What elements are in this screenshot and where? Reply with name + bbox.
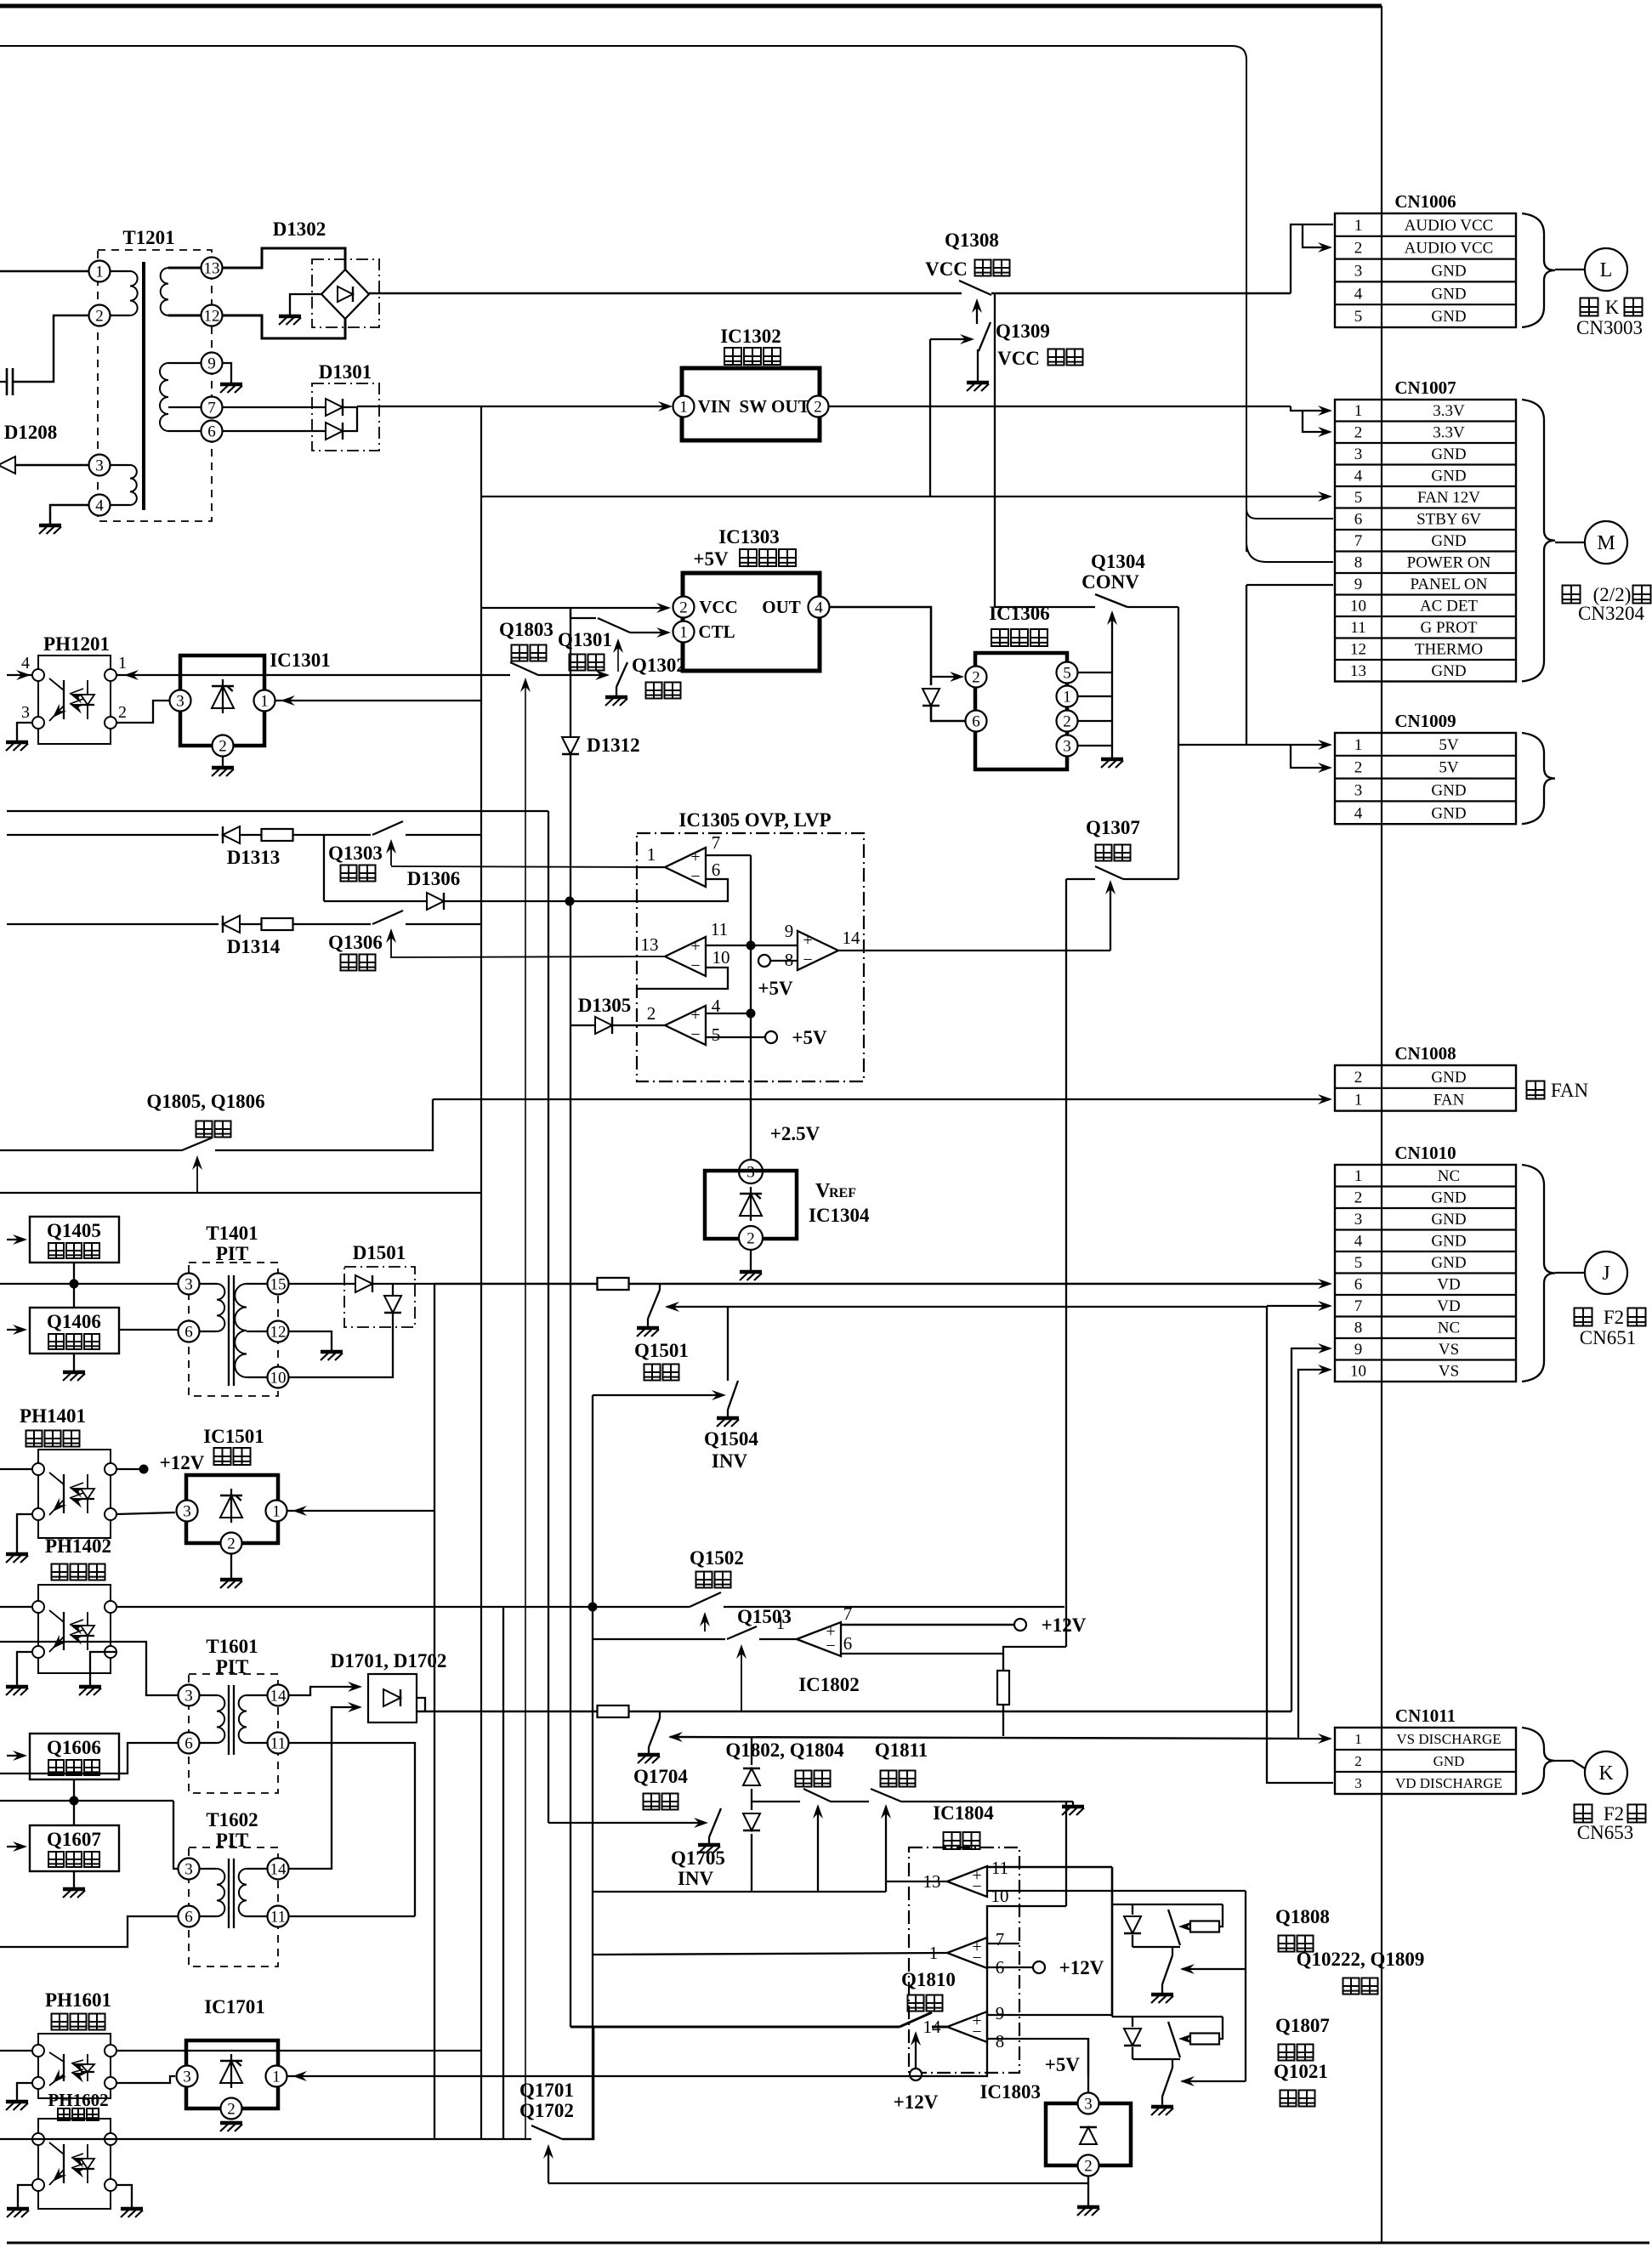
transformer T1201 winding 3-4 [111,464,130,466]
junction dot x=697 on Q1502 line [588,1603,598,1612]
diode Q1807 cell [1132,2017,1133,2027]
regulator IC1303 box [683,573,820,671]
wire PH1402 bottom-left ground [17,1652,32,1685]
+5V terminal comp pin8 [758,955,770,967]
IC1306 pin 5 [1057,662,1078,684]
ground at PH1402 right [79,1685,101,1689]
diode D1312 [562,737,579,754]
arrow into Q1807 blade [1178,2034,1193,2044]
wire bus x=697 [592,1395,593,2139]
driver IC1306 box [975,653,1067,769]
T1602 pin 3 [179,1859,200,1880]
T1401 pin 3 [179,1274,200,1295]
PH1402 phototransistor [63,1612,65,1650]
wire IC1701 pin1 line [287,1906,1066,2076]
resistor under IC1802 [997,1671,1009,1705]
svg-text:2: 2 [1063,712,1071,730]
wire T1201 pin 13 to D1302 [223,248,345,270]
wire Q1405 to line [73,1263,75,1308]
IC1804 comparator 14 [947,2012,987,2042]
wire input to T1201 pin 1 [0,270,88,273]
junction dot +12V [139,1465,149,1474]
switch Q1504 blade [728,1381,738,1410]
arrow into PH1201 pin 1 [124,670,139,680]
optocoupler PH1601 box [38,2034,111,2098]
label Q1807 charge [1279,2045,1295,2061]
wire 3.3V into CN1007 row1 [1291,406,1326,411]
svg-text:D1302: D1302 [273,218,326,240]
ground under Q1504 [717,1416,739,1421]
transformer T1201 core [142,262,145,510]
Q1810 +12V terminal [910,2069,922,2080]
diode D1314 [223,916,240,933]
wire Q1303 control to IC1305 pin1 [391,866,665,867]
wire Q1502 right [724,1606,1064,1608]
ground at PH1402 left [6,1685,28,1689]
Q1803 control arrow [525,680,526,724]
svg-text:NC: NC [1438,1167,1460,1185]
svg-text:11: 11 [270,1908,286,1926]
transformer T1201 pin 7 [202,397,223,418]
svg-text:+: + [803,931,812,950]
ground under Q1302 [605,695,627,700]
wire PH1401 to IC1501 pin3 [116,1512,175,1514]
IC1306 pin 1 [1057,686,1078,707]
svg-text:2: 2 [95,307,104,325]
T1602 pin 11 [268,1906,289,1927]
PH1201 pin3 circle [32,717,44,729]
svg-text:GND: GND [1431,445,1466,463]
wire PH1601 to IC1701 pin3 [116,2076,175,2083]
svg-text:6: 6 [185,1734,193,1752]
wire T1201 pin 4 to ground [50,505,88,524]
arrow into IC1501 pin 1 [292,1506,307,1516]
svg-text:11: 11 [1350,619,1365,637]
wire bracket to M [1555,542,1585,543]
wire IC1304 pin2 ground stem [750,1250,752,1270]
svg-text:3: 3 [1354,262,1363,280]
svg-text:Q10222, Q1809: Q10222, Q1809 [1297,1949,1425,1970]
ground PH1602 right [121,2207,143,2211]
wire Q1808 rail [1112,1904,1223,1905]
junction dot node pin11 [747,941,756,951]
ground at PH1601 [6,2100,28,2104]
svg-text:CN1006: CN1006 [1394,191,1456,212]
switch Q1810 blade [900,2012,932,2027]
wire Q1406 to T1401 pin 6 [119,1329,178,1331]
switch Q1803 blade [510,662,538,675]
svg-text:3: 3 [185,1860,193,1878]
svg-text:1: 1 [647,844,656,865]
wire diode chain mid [751,1789,752,1810]
wire PH1601 bottom-left ground [17,2083,32,2100]
svg-text:IC1302: IC1302 [720,326,781,347]
IC1306 pin 3 [1057,735,1078,757]
svg-text:+12V: +12V [894,2091,939,2113]
wire into CTL [649,632,666,633]
wire PH1601 top-right line [116,2050,481,2052]
PH1201 LED [87,680,88,695]
wire node vertical to IC1304 [750,945,752,1160]
arrow VD into CN1010 row6 [1318,1279,1332,1289]
svg-text:3.3V: 3.3V [1433,402,1465,420]
svg-text:K: K [1605,297,1620,318]
wire pin8 to +5V terminal [770,960,798,962]
wire comp14 pin8 [987,2039,1088,2076]
svg-text:13: 13 [204,259,220,277]
connector CN1011 table [1335,1728,1516,1794]
wire Q1805 right [215,1099,433,1150]
svg-text:5: 5 [1354,1254,1363,1272]
wire bus x=671 from VCC line down [570,608,571,737]
wire comp1 output to box edge [637,866,665,868]
IC1302 pin 2 [808,396,829,417]
svg-text:2: 2 [1084,2157,1093,2175]
svg-text:D1306: D1306 [407,868,461,889]
arrow into Q10222 [1182,1968,1246,1970]
wire IC1501 pin1 line [287,1510,434,1512]
wire D1306 line [324,900,427,902]
wire comp1 pin6 to +12V [987,1966,1033,1968]
svg-text:L: L [1600,259,1613,281]
svg-text:1: 1 [679,398,688,416]
svg-text:D1501: D1501 [353,1242,406,1263]
svg-text:6: 6 [712,860,721,880]
svg-text:9: 9 [785,921,794,941]
svg-text:D1701, D1702: D1701, D1702 [331,1650,447,1671]
svg-text:3: 3 [1354,1211,1363,1229]
IC1306 pin 2 right [1057,711,1078,732]
connector CN1009 table [1335,733,1516,824]
wire IC1306 pin5 to conv node [1078,672,1112,673]
diode D1306 [427,893,444,910]
svg-text:2: 2 [1354,1189,1363,1207]
T1601 primary winding [200,1694,217,1696]
wire diode chain stem [751,1737,752,1765]
wire Q1810 right to comp14 [932,2026,947,2029]
wire T1601 pin6 left [0,1743,178,1773]
svg-text:CONV: CONV [1081,571,1139,593]
wire Q1705 control line [548,1822,703,1824]
svg-text:4: 4 [1354,285,1363,303]
svg-text:T1401: T1401 [206,1223,258,1244]
svg-text:7: 7 [843,1603,853,1624]
wire T1201 pin 9 ground stub [223,363,231,383]
wire pin7 down to node [750,855,752,945]
wire FAN line [433,1098,1326,1100]
wire Q1307 left terminal [1066,878,1095,880]
switch Q1802 blade [803,1789,831,1802]
svg-text:−: − [972,2023,981,2041]
IC1701 box [186,2040,278,2108]
T1401 pin 12 [268,1321,289,1342]
svg-text:Q1701: Q1701 [519,2080,574,2101]
svg-text:7: 7 [1354,1297,1363,1315]
IC1501 pin 1 [266,1501,287,1522]
svg-text:IC1501: IC1501 [203,1426,264,1447]
svg-text:6: 6 [972,712,980,730]
diode on IC1306 feed [923,689,940,706]
arrow into Q1607 [7,1846,22,1847]
ground under IC1304 [740,1270,762,1274]
svg-text:+: + [690,1006,700,1024]
svg-text:15: 15 [270,1275,287,1293]
svg-text:8: 8 [996,2031,1005,2052]
svg-text:Q1807: Q1807 [1275,2015,1330,2036]
svg-text:Q1504: Q1504 [704,1428,758,1450]
svg-text:Q1702: Q1702 [519,2100,574,2121]
+5V terminal comp2 pin5 [765,1031,777,1043]
wire bottom border [7,2242,1649,2244]
transformer T1201 secondary winding 13-12 [168,267,201,270]
svg-text:PH1201: PH1201 [43,633,110,655]
svg-text:GND: GND [1431,1069,1466,1087]
ground right of Q1811 [1062,1805,1084,1809]
svg-text:3: 3 [176,692,185,710]
PH1602 LED [87,2144,88,2159]
switch Q1811 blade [871,1789,901,1802]
switch Q1805 blade [182,1138,213,1150]
svg-text:VD: VD [1437,1297,1460,1315]
svg-text:Q1704: Q1704 [633,1766,688,1787]
switch Q1502 blade [690,1592,721,1607]
wire T1201 pin 6 to D1301 [223,430,325,432]
svg-text:Q1811: Q1811 [875,1739,928,1761]
transformer T1601 dashed box [189,1674,278,1793]
wire 3.3V branch into CN1007 row2 [1303,411,1326,432]
svg-text:IC1305 OVP, LVP: IC1305 OVP, LVP [678,809,831,831]
wire Q1802 control stem [817,1816,819,1892]
ground at T1401 pin 12 [321,1350,343,1354]
wire Q1307 right to x=1386 [1123,878,1178,880]
arrow into CN1011 row1 [1318,1734,1332,1744]
transformer T1601 core [228,1685,230,1755]
svg-text:CN653: CN653 [1577,1822,1633,1843]
svg-text:4: 4 [1354,468,1363,485]
transformer T1201 primary winding 1-2 [111,270,130,272]
wire IC1803 pin2 stem [1087,2176,1089,2205]
wire Q1303 to bus [406,834,481,836]
IC1301 pin 1 [254,690,275,712]
wire Q1807 rail [1112,2016,1223,2017]
svg-text:FAN: FAN [1551,1080,1589,1101]
svg-text:Q1309: Q1309 [996,321,1050,342]
optocoupler PH1401 box [38,1450,111,1538]
diode block D1701 box [368,1674,417,1722]
wire Q1309 control arrow [930,338,969,340]
svg-text:PIT: PIT [216,1243,248,1264]
svg-text:T1601: T1601 [206,1636,258,1657]
wire IC1306 pin3 [1078,745,1112,746]
wire comp2 -input pin5 to +5V [706,1036,765,1038]
svg-text:+5V: +5V [792,1027,827,1048]
wire 5V branch to CN1009 row2 [1291,745,1326,768]
IC1303 pin 4 [809,597,830,618]
wire Q1302 stem [616,687,617,695]
arrow into IC1302 pin 1 [658,401,673,411]
connector CN1007 table [1335,400,1516,682]
bracket CN1009 [1522,733,1555,824]
rectifier D1302 bridge diamond [321,270,369,319]
arrow into Q1606 [7,1755,22,1756]
regulator IC1302 label2 [724,348,741,365]
arrow into Q1704 [668,1732,683,1742]
wire resistor to Q1303 [293,834,371,836]
svg-text:−: − [972,1877,981,1896]
svg-text:2: 2 [972,668,980,686]
wire D1302 left corner to ground [290,294,321,315]
svg-text:Q1606: Q1606 [47,1737,101,1758]
wire ground stem Q1811 line [1072,1802,1074,1805]
transformer T1201 dashed box [98,250,212,521]
transformer T1201 pin 3 [89,455,111,476]
wire comp1 output left [593,1953,947,1955]
wire Q1808 cell bottom [1133,1946,1180,1948]
svg-text:VCC: VCC [699,597,738,617]
svg-text:CN651: CN651 [1580,1327,1636,1348]
svg-text:Q1306: Q1306 [328,932,383,953]
PH1201 pin2 circle [105,717,116,729]
svg-text:3: 3 [183,1502,191,1520]
wire IC1803 pin3 stem [1087,2039,1089,2093]
svg-text:−: − [690,1025,700,1044]
svg-text:14: 14 [843,928,861,948]
wire FAN 12V to CN1007 row 5 [481,496,1326,497]
wire right main vertical bus x=1625 [1381,6,1382,2243]
T1401 pin 6 [179,1321,200,1342]
svg-text:PH1401: PH1401 [20,1405,86,1427]
svg-text:Q1810: Q1810 [901,1969,956,1990]
svg-text:11: 11 [270,1734,286,1752]
switch Q1705 blade [709,1808,721,1837]
svg-text:10: 10 [712,947,730,968]
ground at D1302 [279,315,301,319]
resistor on D1314 line [241,923,262,925]
svg-text:14: 14 [270,1687,287,1705]
svg-text:CN3204: CN3204 [1578,603,1644,624]
wire comp1 +input pin7 [706,854,751,856]
PH1602 phototransistor [63,2144,65,2183]
wire pin11 vertical x=1308 [1111,1867,1114,2017]
svg-text:1: 1 [1354,402,1363,420]
wire main line y=2516 [0,2138,531,2140]
ground under IC1501 [220,1578,242,1582]
wire PH1401 pin to +12V [116,1468,144,1470]
wire to Q1304 switch [995,606,1095,608]
svg-text:1: 1 [1354,736,1363,754]
svg-text:D1313: D1313 [227,847,281,868]
wire D1701 out [417,1698,425,1711]
svg-text:PANEL ON: PANEL ON [1411,576,1488,593]
junction dot Q1606 [70,1796,79,1806]
wire VCC feed from bus [481,607,666,609]
svg-text:Q1502: Q1502 [690,1547,744,1569]
wire main VD line into T1401 [0,1283,178,1285]
svg-text:Q1808: Q1808 [1275,1906,1330,1927]
svg-text:4: 4 [1354,1233,1363,1251]
PH1601 LED [87,2054,88,2064]
IC1701 pin 2 [221,2098,242,2120]
svg-text:1: 1 [1354,1167,1363,1185]
transformer T1201 pin 12 [202,305,223,326]
svg-text:GND: GND [1431,262,1466,280]
diode D1313 [223,826,240,843]
svg-text:2: 2 [679,599,688,616]
svg-text:D1314: D1314 [227,936,281,957]
svg-text:IC1803: IC1803 [979,2081,1041,2103]
svg-text:4: 4 [815,599,823,616]
wire top horizontal rail [0,46,1246,552]
svg-text:Q1501: Q1501 [634,1340,689,1361]
T1601 pin 11 [268,1733,289,1754]
transformer T1201 pin 6 [202,421,223,442]
IC1305 dash-dot box [637,833,864,1081]
ground under T1201 pin 4 [39,524,61,528]
switch Q1306 blade [372,911,403,924]
wire into T1602 pin 3 [173,1801,178,1869]
svg-text:1: 1 [1063,688,1071,706]
svg-text:CN3003: CN3003 [1576,317,1643,338]
wire bus branch to Q1301 [571,608,596,618]
wire Q1504 control line [593,1394,721,1396]
ground under IC1306 pins [1101,758,1123,762]
IC1501 thyristor symbol [230,1489,232,1523]
Q1308 control arrow [976,301,978,324]
arrow into Q1405 [7,1239,22,1240]
wire bus x=671 lower [570,754,571,2027]
svg-text:GND: GND [1431,1211,1466,1229]
svg-text:OUT: OUT [762,597,801,617]
label to F2 board K [1575,1805,1592,1823]
svg-text:2: 2 [647,1003,656,1024]
wire POWER ON elbow [1246,542,1333,562]
svg-text:Q1301: Q1301 [558,629,612,650]
wire Q1811 right to ground [901,1801,1073,1802]
diode Q1808 cell [1132,1904,1133,1915]
wire T1201 pin 12 to D1302 bottom [223,315,345,338]
wire comp13 -input pin10 feedback [637,968,728,989]
svg-text:1: 1 [95,263,104,281]
svg-text:GND: GND [1431,781,1466,799]
transformer T1201 secondary winding 9-7-6 [168,362,201,364]
diode D1501b [384,1296,401,1313]
wire control vertical x=1465 [1245,1891,1246,2081]
switch Q10222 blade [1162,1955,1172,1984]
resistor on VS rail [598,1705,629,1717]
wire resistor to rail [1219,1904,1223,1927]
IC1501 pin 3 [177,1501,198,1522]
comparator IC1802 [797,1622,841,1656]
ground under IC1701 [220,2121,242,2125]
wire x=1254 vertical [1065,879,1067,1647]
converter Q1606 box [30,1734,119,1779]
switch Q1704 stub [659,1711,661,1718]
switch Q1309 blade [979,322,991,351]
svg-text:+12V: +12V [1059,1957,1104,1978]
wire left line y=1403 [0,1192,481,1194]
T1601 pin 14 [268,1685,289,1706]
wire Q1803 control vertical x=618 [525,724,526,2139]
wire AUDIO VCC branch into CN1006 row2 [1303,224,1326,247]
svg-text:6: 6 [185,1323,193,1341]
resistor Q1807 [1190,2034,1219,2045]
diode clamp lower [743,1813,760,1830]
T1401 secondary winding [247,1283,267,1285]
svg-text:GND: GND [1431,804,1466,822]
resistor on VD rail [598,1278,629,1290]
svg-text:GND: GND [1431,662,1466,680]
IC1803 pin 3 [1078,2093,1099,2114]
